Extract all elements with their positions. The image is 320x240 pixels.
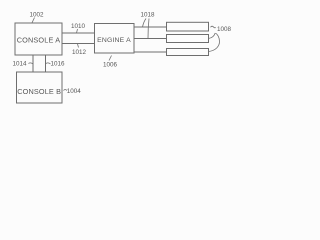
svg-text:1014: 1014: [12, 61, 27, 68]
label 1014: [12, 61, 33, 68]
svg-text:1018: 1018: [140, 12, 155, 19]
label 1018: [140, 12, 155, 39]
wire engine to device rect 1: [134, 26, 167, 28]
wire 1012 (Console A to Engine A, lower): [62, 43, 95, 45]
svg-text:1012: 1012: [72, 49, 87, 56]
wire engine to device rect 3: [134, 51, 167, 53]
svg-text:1002: 1002: [29, 12, 44, 19]
svg-text:1010: 1010: [71, 23, 86, 30]
label 1002: [29, 12, 44, 23]
label 1004: [64, 88, 82, 95]
svg-text:1006: 1006: [103, 62, 118, 69]
device rect 2 (middle of 1008 group): [167, 35, 209, 43]
label 1010: [71, 23, 86, 33]
label 1006: [103, 56, 118, 69]
wire 1014 (Console A to Console B, left vertical): [32, 55, 34, 72]
device rect 3 (bottom of 1008 group): [167, 49, 209, 56]
svg-text:1008: 1008: [217, 26, 232, 33]
svg-text:1016: 1016: [50, 61, 65, 68]
device rect 1 (top of 1008 group): [167, 22, 209, 31]
svg-text:CONSOLE B: CONSOLE B: [17, 87, 61, 96]
svg-text:CONSOLE A: CONSOLE A: [17, 36, 61, 45]
block CONSOLE B (1004): [17, 72, 63, 103]
wire 1016 (Console A to Console B, right vertical): [45, 55, 47, 72]
svg-text:1004: 1004: [67, 88, 82, 95]
wire 1010 (Console A to Engine A, upper): [62, 32, 95, 34]
block ENGINE A (1006): [95, 24, 135, 54]
wire engine to device rect 2: [134, 38, 167, 40]
label 1016: [46, 61, 65, 68]
svg-text:ENGINE A: ENGINE A: [97, 37, 131, 44]
label 1008 with pointer curves: [209, 26, 232, 51]
label 1012: [72, 44, 87, 56]
block CONSOLE A (1002): [15, 23, 62, 55]
